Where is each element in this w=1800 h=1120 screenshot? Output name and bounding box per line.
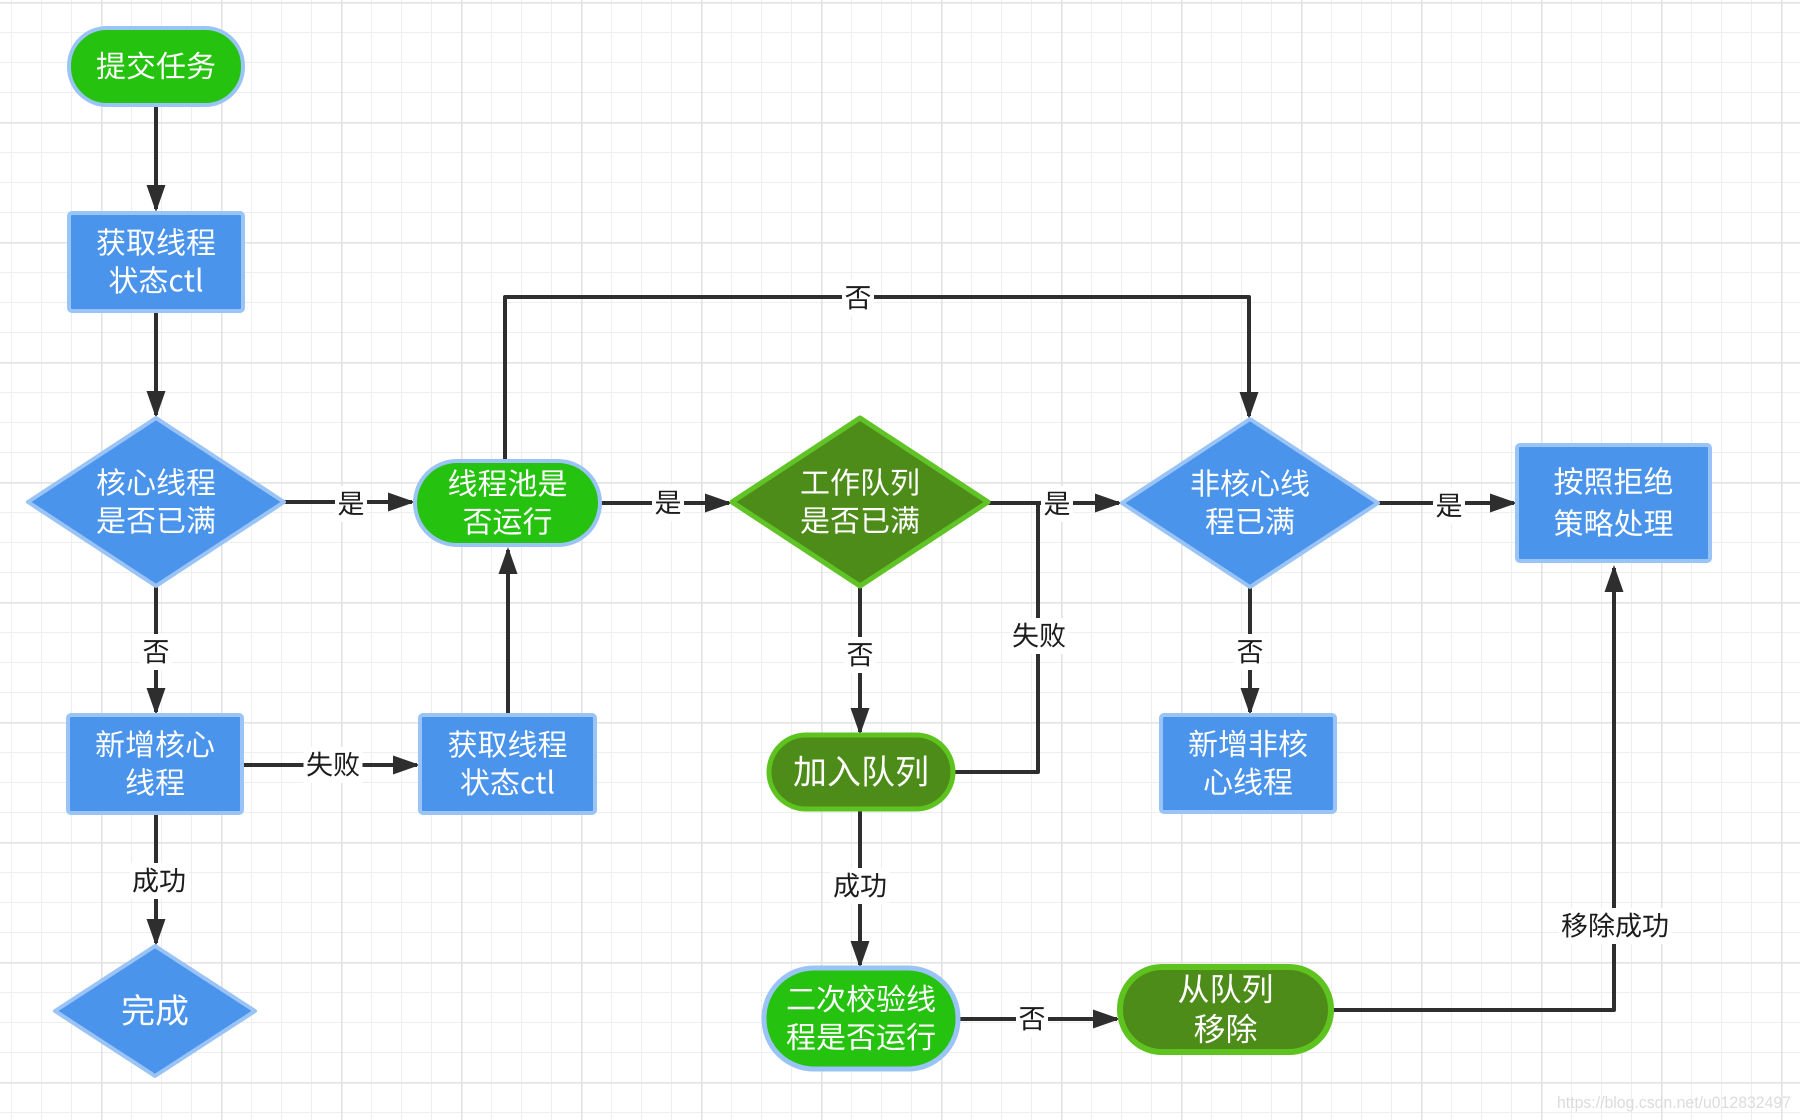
svg-text:https://blog.csdn.net/u0128324: https://blog.csdn.net/u012832497 [1557,1093,1791,1112]
